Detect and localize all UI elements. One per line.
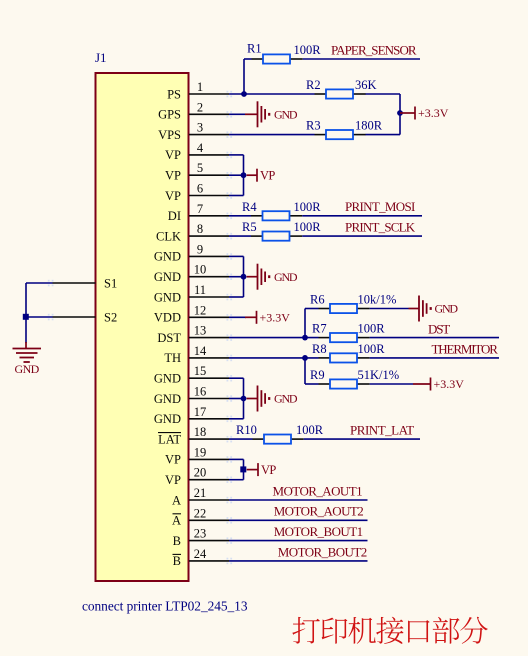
svg-text:20: 20 xyxy=(194,466,207,480)
power ground stub R6 xyxy=(409,308,420,310)
svg-text:100R: 100R xyxy=(358,322,386,336)
overline for pin 22 xyxy=(173,513,182,515)
svg-text:VP: VP xyxy=(165,189,181,203)
svg-text:connect printer LTP02_245_13: connect printer LTP02_245_13 xyxy=(82,599,248,614)
svg-text:GND: GND xyxy=(154,392,181,406)
svg-text:5: 5 xyxy=(197,161,203,175)
resistor R7 leads xyxy=(319,337,331,339)
svg-text:GND: GND xyxy=(154,412,181,426)
pin 23 stub xyxy=(189,540,229,542)
svg-text:S1: S1 xyxy=(104,276,117,290)
svg-text:17: 17 xyxy=(194,405,207,419)
svg-text:VP: VP xyxy=(260,168,275,182)
wire R2 right xyxy=(366,93,401,95)
svg-text:24: 24 xyxy=(194,547,207,561)
svg-text:VP: VP xyxy=(165,169,181,183)
svg-text:R9: R9 xyxy=(310,368,325,382)
power ground symbol pins 15-17 xyxy=(257,386,259,412)
wire pin 24 / MOTOR_BOUT2 net xyxy=(229,560,368,562)
svg-text:GND: GND xyxy=(274,108,298,122)
svg-text:14: 14 xyxy=(194,344,207,358)
svg-text:16: 16 xyxy=(194,385,207,399)
overline for pin 18 xyxy=(158,432,181,434)
wire vertical GND bus pins 15-17 xyxy=(243,378,245,419)
svg-text:22: 22 xyxy=(194,506,207,520)
svg-text:R10: R10 xyxy=(236,423,257,437)
svg-text:J1: J1 xyxy=(95,50,107,65)
svg-text:12: 12 xyxy=(194,303,207,317)
svg-text:GND: GND xyxy=(154,290,181,304)
pin 9 stub xyxy=(189,255,229,257)
wire vertical GND bus pins 9-11 xyxy=(243,256,245,297)
svg-text:A: A xyxy=(172,493,181,507)
svg-text:TH: TH xyxy=(164,351,181,365)
junction GND pins 9-11 xyxy=(241,274,247,280)
wire R1 left xyxy=(244,58,252,60)
wire R1 vertical to pin 1 xyxy=(243,59,245,94)
wire pin 3 to R3 xyxy=(229,134,315,136)
power stub VP 2 xyxy=(247,469,258,471)
power stub VP xyxy=(247,174,257,176)
svg-text:VP: VP xyxy=(165,148,181,162)
svg-text:10k/1%: 10k/1% xyxy=(358,293,397,307)
wire R9 left xyxy=(305,383,319,385)
svg-text:DST: DST xyxy=(428,322,450,337)
svg-text:MOTOR_BOUT1: MOTOR_BOUT1 xyxy=(274,524,363,539)
ground stub xyxy=(25,342,27,348)
junction pin 14 R9 tap xyxy=(302,355,308,361)
svg-text:21: 21 xyxy=(194,486,207,500)
svg-text:13: 13 xyxy=(194,324,207,338)
wire vertical R9 to pin 14 xyxy=(304,358,306,384)
pin 16 stub xyxy=(189,398,229,400)
wire pin 5 to VP bus xyxy=(229,174,244,176)
power stub +3.3V R9 xyxy=(413,383,431,385)
resistor R2 leads xyxy=(315,93,327,95)
svg-text:+3.3V: +3.3V xyxy=(434,377,465,391)
svg-text:7: 7 xyxy=(197,202,203,216)
svg-text:11: 11 xyxy=(194,283,206,297)
wire vertical R2-R3 xyxy=(399,94,401,135)
svg-text:GND: GND xyxy=(154,270,181,284)
wire pin 6 to VP bus xyxy=(229,195,244,197)
svg-text:R6: R6 xyxy=(310,293,325,307)
pin S2 stub xyxy=(53,316,96,318)
svg-text:S2: S2 xyxy=(104,310,117,324)
pin 22 stub xyxy=(189,519,229,521)
pin 14 stub xyxy=(189,357,229,359)
resistor R4 body xyxy=(263,211,290,220)
svg-text:PS: PS xyxy=(167,87,181,101)
svg-text:15: 15 xyxy=(194,364,207,378)
svg-text:23: 23 xyxy=(194,527,207,541)
svg-text:9: 9 xyxy=(197,242,203,256)
wire S1 to corner xyxy=(26,282,53,284)
pin 13 stub xyxy=(189,337,229,339)
resistor R1 body xyxy=(263,54,290,63)
svg-text:19: 19 xyxy=(194,445,207,459)
wire pin 4 to VP bus xyxy=(229,154,244,156)
svg-text:GPS: GPS xyxy=(158,108,181,122)
resistor R6 leads xyxy=(319,308,331,310)
svg-text:PRINT_LAT: PRINT_LAT xyxy=(350,423,414,438)
wire R4 right / PRINT_MOSI net xyxy=(302,215,422,217)
pin 21 stub xyxy=(189,499,229,501)
svg-text:CLK: CLK xyxy=(156,229,181,243)
svg-text:3: 3 xyxy=(197,121,203,135)
svg-text:4: 4 xyxy=(197,141,204,155)
svg-text:MOTOR_BOUT2: MOTOR_BOUT2 xyxy=(278,544,367,559)
wire pin 10 to GND bus xyxy=(229,276,244,278)
svg-text:36K: 36K xyxy=(355,78,377,92)
power ground symbol pin 2 xyxy=(257,101,259,127)
resistor R3 body xyxy=(326,130,353,139)
resistor R1 leads xyxy=(252,58,264,60)
power symbol +3.3V top bar xyxy=(414,107,416,120)
svg-text:MOTOR_AOUT2: MOTOR_AOUT2 xyxy=(274,504,364,519)
svg-text:R2: R2 xyxy=(306,78,321,92)
junction at S2 xyxy=(23,314,29,320)
svg-text:VP: VP xyxy=(165,453,181,467)
resistor R3 leads xyxy=(315,134,327,136)
svg-text:R7: R7 xyxy=(312,322,327,336)
svg-text:8: 8 xyxy=(197,222,203,236)
wire R6 left xyxy=(305,308,319,310)
pin 4 stub xyxy=(189,154,229,156)
power ground stub pins 9-11 xyxy=(247,276,257,278)
pin 10 stub xyxy=(189,276,229,278)
svg-text:B: B xyxy=(173,534,181,548)
svg-text:A: A xyxy=(172,514,181,528)
svg-text:DI: DI xyxy=(168,209,181,223)
svg-text:+3.3V: +3.3V xyxy=(418,106,449,120)
power symbol VP 2 bar xyxy=(257,463,259,476)
svg-text:6: 6 xyxy=(197,182,203,196)
pin 20 stub xyxy=(189,479,229,481)
wire pin 14 to R8 xyxy=(229,357,319,359)
svg-text:GND: GND xyxy=(274,270,298,284)
junction GND pins 15-17 xyxy=(241,396,247,402)
wire pin 15 to GND bus 2 xyxy=(229,377,244,379)
wire R9 right xyxy=(370,383,413,385)
resistor R10 leads xyxy=(253,438,265,440)
svg-text:MOTOR_AOUT1: MOTOR_AOUT1 xyxy=(273,483,363,498)
junction pin 13 R6 tap xyxy=(302,335,308,341)
resistor R4 leads xyxy=(251,215,263,217)
pin 11 stub xyxy=(189,296,229,298)
pin 2 stub xyxy=(189,113,229,115)
svg-text:18: 18 xyxy=(194,425,207,439)
power symbol VP bar xyxy=(256,169,258,182)
resistor R8 leads xyxy=(319,357,331,359)
svg-text:GND: GND xyxy=(15,362,40,376)
wire vertical VP bus pins 19-20 xyxy=(243,459,245,479)
connector J1 body xyxy=(96,73,189,581)
svg-text:2: 2 xyxy=(197,100,203,114)
svg-text:VDD: VDD xyxy=(154,311,181,325)
pin 6 stub xyxy=(189,195,229,197)
wire pin 11 to GND bus xyxy=(229,296,244,298)
svg-text:GND: GND xyxy=(274,392,298,406)
wire pin 13 to R7 xyxy=(229,337,319,339)
wire pin 23 / MOTOR_BOUT1 net xyxy=(229,540,368,542)
power symbol +3.3V R9 bar xyxy=(430,378,432,391)
wire R10 right / PRINT_LAT net xyxy=(304,438,420,440)
resistor R10 body xyxy=(264,435,291,444)
pin 3 stub xyxy=(189,134,229,136)
wire pin 20 to VP bus 2 xyxy=(229,479,244,481)
wire pin 17 to GND bus 2 xyxy=(229,418,244,420)
earth ground GND symbol xyxy=(13,348,42,350)
wire pin 12 xyxy=(229,316,246,318)
resistor R5 body xyxy=(263,232,290,241)
svg-text:100R: 100R xyxy=(294,43,322,57)
resistor R9 body xyxy=(330,379,357,388)
svg-text:GND: GND xyxy=(435,302,459,316)
power ground symbol R6 xyxy=(418,296,420,322)
pin 17 stub xyxy=(189,418,229,420)
wire vertical R6 to pin 13 xyxy=(304,309,306,338)
svg-text:51K/1%: 51K/1% xyxy=(358,368,400,382)
wire S2 to vertical xyxy=(26,316,53,318)
wire pin 16 to GND bus 2 xyxy=(229,398,244,400)
pin 1 stub xyxy=(189,93,229,95)
wire pin 21 / MOTOR_AOUT1 net xyxy=(229,499,368,501)
svg-text:100R: 100R xyxy=(358,342,386,356)
pin S1 stub xyxy=(53,282,96,284)
junction pin 1 xyxy=(241,91,247,97)
overline for pin 24 xyxy=(173,553,182,555)
resistor R8 body xyxy=(330,353,357,362)
pin 7 stub xyxy=(189,215,229,217)
svg-text:180R: 180R xyxy=(355,119,383,133)
pin 18 stub xyxy=(189,438,229,440)
svg-text:GND: GND xyxy=(154,250,181,264)
pin 24 stub xyxy=(189,560,229,562)
svg-text:VPS: VPS xyxy=(158,128,181,142)
wire R5 right / PRINT_SCLK net xyxy=(302,235,422,237)
svg-text:R8: R8 xyxy=(312,342,327,356)
wire R6 right xyxy=(370,308,409,310)
svg-text:100R: 100R xyxy=(294,220,322,234)
svg-text:PAPER_SENSOR: PAPER_SENSOR xyxy=(331,43,417,58)
wire R3 right xyxy=(366,134,401,136)
resistor R7 body xyxy=(330,333,357,342)
wire pin 7 to R4 xyxy=(229,215,251,217)
svg-text:R4: R4 xyxy=(242,200,257,214)
power stub +3.3V top xyxy=(400,112,415,114)
resistor R5 leads xyxy=(251,235,263,237)
power ground stub pins 15-17 xyxy=(247,398,257,400)
resistor R2 body xyxy=(326,89,353,98)
svg-text:R1: R1 xyxy=(247,42,262,56)
svg-text:+3.3V: +3.3V xyxy=(260,311,291,325)
wire pin 22 / MOTOR_AOUT2 net xyxy=(229,519,368,521)
svg-text:10: 10 xyxy=(194,263,207,277)
svg-text:VP: VP xyxy=(261,463,276,477)
svg-text:PRINT_MOSI: PRINT_MOSI xyxy=(345,199,415,214)
wire R1 right / PAPER_SENSOR net xyxy=(303,58,420,60)
wire pin 1 to R2 xyxy=(229,93,315,95)
svg-text:B: B xyxy=(173,554,181,568)
title text 打印机接口部分 (vector glyphs) xyxy=(292,617,487,644)
power stub +3.3V pin 12 xyxy=(245,316,257,318)
junction VP pins 19-20 xyxy=(240,466,246,472)
pin 19 stub xyxy=(189,458,229,460)
svg-text:100R: 100R xyxy=(296,423,324,437)
wire vertical VP bus pins 4-6 xyxy=(243,155,245,196)
svg-text:VP: VP xyxy=(165,473,181,487)
power symbol +3.3V pin 12 bar xyxy=(256,311,258,324)
resistor R9 leads xyxy=(319,383,331,385)
wire pin 19 to VP bus 2 xyxy=(229,458,244,460)
pin 12 stub xyxy=(189,316,229,318)
svg-text:R5: R5 xyxy=(242,220,257,234)
pin 5 stub xyxy=(189,174,229,176)
resistor R6 body xyxy=(330,304,357,313)
svg-text:1: 1 xyxy=(197,80,203,94)
svg-text:THERMITOR: THERMITOR xyxy=(432,342,499,357)
power ground stub pin 2 xyxy=(245,113,257,115)
wire R7 right / DST net xyxy=(370,337,499,339)
wire pin 9 to GND bus xyxy=(229,255,244,257)
svg-text:PRINT_SCLK: PRINT_SCLK xyxy=(345,219,416,234)
junction VP pins 4-6 xyxy=(241,172,247,178)
power ground symbol pins 9-11 xyxy=(257,264,259,290)
pin 8 stub xyxy=(189,235,229,237)
wire R8 right / THERMITOR net xyxy=(370,357,499,359)
wire pin 2 xyxy=(229,113,245,115)
svg-text:R3: R3 xyxy=(306,119,321,133)
svg-text:GND: GND xyxy=(154,372,181,386)
svg-text:100R: 100R xyxy=(294,200,322,214)
svg-text:LAT: LAT xyxy=(158,432,181,446)
pin 15 stub xyxy=(189,377,229,379)
wire vertical S1-S2-ground xyxy=(25,283,27,343)
wire pin 8 to R5 xyxy=(229,235,251,237)
junction +3.3V tap xyxy=(397,110,403,116)
wire pin 18 to R10 xyxy=(229,438,253,440)
svg-text:DST: DST xyxy=(157,331,181,345)
